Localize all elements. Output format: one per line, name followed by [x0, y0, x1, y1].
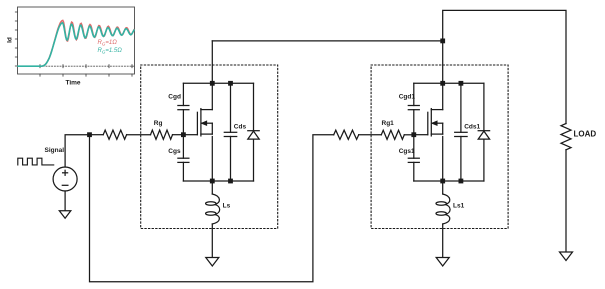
svg-text:Cgd1: Cgd1: [399, 93, 416, 100]
capacitor Cds: [224, 83, 246, 181]
node Cds top: [228, 81, 233, 86]
svg-text:Cgs: Cgs: [168, 148, 181, 155]
inductor Ls1: [436, 181, 465, 258]
svg-text:RG=1Ω: RG=1Ω: [98, 40, 118, 47]
wire bottom rail: [414, 180, 484, 182]
wire Rg1 to gate node: [404, 134, 414, 136]
wire top link: [212, 40, 442, 42]
curve Rg=1.5 (teal): [18, 23, 134, 66]
svg-text:LOAD: LOAD: [574, 130, 597, 139]
svg-text:Id: Id: [7, 37, 14, 43]
wire load bottom: [565, 150, 567, 252]
svg-text:Rg1: Rg1: [382, 120, 395, 127]
node drain rail: [210, 81, 215, 86]
capacitor Cgd: [168, 83, 189, 134]
inductor Ls: [206, 181, 231, 258]
wire gate lead: [183, 134, 197, 136]
diode D1 (body diode): [248, 131, 259, 139]
node A (signal node): [87, 132, 92, 137]
node gate G1: [181, 132, 186, 137]
svg-text:Cgs1: Cgs1: [399, 148, 415, 155]
svg-text:Rg: Rg: [154, 120, 163, 127]
wire return (node A down and along bottom): [90, 135, 334, 282]
capacitor Cgd1: [399, 83, 420, 134]
dotted zero baseline: [18, 65, 134, 67]
wire diode column: [483, 83, 485, 130]
resistor Rg: [151, 130, 173, 139]
square-wave glyph: [18, 158, 54, 165]
dotted package box stage 2: [371, 65, 508, 229]
ground below stage 1: [206, 258, 219, 267]
svg-text:Cds: Cds: [234, 123, 247, 130]
wire top rail: [183, 82, 253, 84]
svg-text:Cgd: Cgd: [168, 93, 181, 100]
wire top rail: [414, 82, 484, 84]
node Cds bottom: [459, 179, 464, 184]
ground under load: [560, 252, 573, 261]
wire source top: [65, 135, 89, 167]
node gate G2: [411, 132, 416, 137]
wire source bottom: [64, 191, 66, 211]
svg-text:Signal: Signal: [45, 147, 65, 154]
wire to Rg: [127, 134, 151, 136]
node Cds bottom: [228, 179, 233, 184]
svg-text:RG=1.5Ω: RG=1.5Ω: [98, 48, 123, 55]
node drain rail: [440, 81, 445, 86]
dotted package box stage 1: [141, 65, 278, 229]
resistor Rg1: [381, 130, 404, 139]
wire gate lead: [414, 134, 428, 136]
curve Rg=1 (red): [18, 20, 134, 66]
transistor M1: [197, 109, 212, 136]
resistor LOAD: [561, 124, 571, 150]
diode D2 (body diode): [478, 131, 489, 139]
capacitor Cgs: [168, 135, 189, 181]
capacitor Cds1: [455, 83, 481, 181]
wire Rg to gate node: [173, 134, 184, 136]
svg-text:Cds1: Cds1: [464, 123, 480, 130]
wire drain to top rail: [442, 83, 444, 109]
wire diode column: [253, 83, 255, 130]
wire bottom rail: [183, 180, 253, 182]
svg-text:Ls1: Ls1: [453, 203, 465, 210]
wire to Rg1: [359, 134, 382, 136]
ground under source: [59, 211, 71, 219]
resistor (stage2 source impedance): [334, 130, 359, 139]
source V1 (pulse source): [53, 167, 77, 191]
wire to load (top): [443, 10, 566, 123]
node source rail: [440, 179, 445, 184]
wire node A to R1: [90, 134, 104, 136]
wire source to bottom rail: [211, 137, 213, 182]
node drain link: [440, 39, 445, 44]
capacitor Cgs1: [399, 135, 420, 181]
svg-text:Ls: Ls: [223, 203, 231, 210]
node Cds top: [459, 81, 464, 86]
wire drain2 riser: [442, 41, 444, 83]
ground below stage 2: [436, 258, 449, 267]
node source rail: [210, 179, 215, 184]
resistor (source impedance): [103, 130, 126, 139]
inset plot: Id vs Time: [7, 7, 135, 87]
wire drain1 riser: [211, 41, 213, 83]
svg-text:Time: Time: [65, 80, 80, 87]
transistor M2: [428, 109, 443, 136]
wire drain to top rail: [211, 83, 213, 109]
wire source to bottom rail: [442, 137, 444, 182]
